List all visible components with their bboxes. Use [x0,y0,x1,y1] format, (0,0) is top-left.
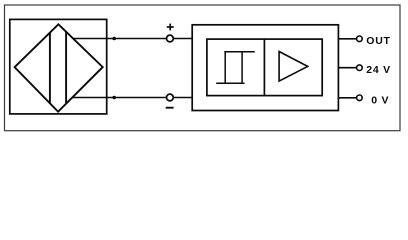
svg-text:0 V: 0 V [371,94,389,106]
junction dot plus [112,37,116,41]
plus label [167,24,174,31]
amplifier triangle [279,52,308,82]
outer border [5,5,401,131]
terminal 24V [357,65,363,71]
sensor box [10,19,107,114]
diamond chord right [65,32,67,104]
function inner box [207,39,322,96]
amplifier outer box [192,25,338,111]
terminal circle plus [167,35,174,42]
svg-text:OUT: OUT [366,35,390,47]
wire minus supply [73,97,192,99]
wire 0V [338,97,356,99]
wire OUT [338,38,356,40]
junction dot minus [112,96,116,100]
terminal 0V [357,95,363,101]
minus label [166,107,174,109]
terminal circle minus [167,94,174,101]
wire 24V [338,67,356,69]
cell divider [263,39,265,96]
wire plus supply [73,38,192,40]
schmitt trigger hysteresis symbol [216,52,255,83]
svg-text:24 V: 24 V [366,64,391,76]
diamond chord left [49,33,51,104]
terminal OUT [357,36,363,42]
sensor diamond [15,24,103,111]
